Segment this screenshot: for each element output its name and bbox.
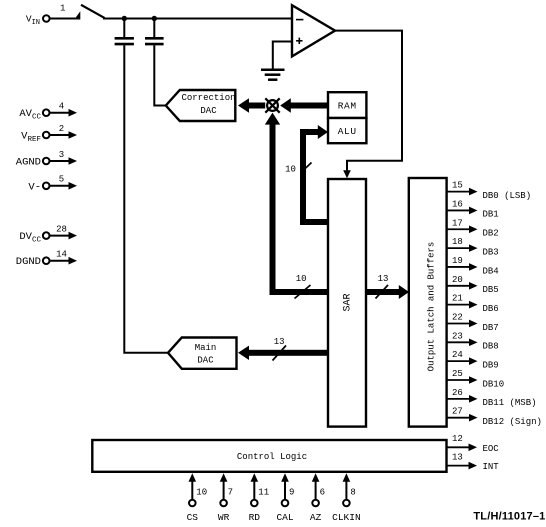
- pin 28 DVCC input: [19, 224, 77, 244]
- svg-text:DB7: DB7: [483, 323, 499, 333]
- svg-text:DB4: DB4: [483, 266, 499, 276]
- svg-text:DB6: DB6: [483, 304, 499, 314]
- svg-text:28: 28: [56, 224, 67, 234]
- pin 3 AGND input: [16, 150, 77, 169]
- svg-text:DB2: DB2: [483, 229, 499, 239]
- capacitor C2: [145, 19, 164, 45]
- Control Logic U6: [92, 440, 446, 472]
- pin 8 CLKIN input: [332, 473, 361, 523]
- ground: [261, 70, 285, 80]
- svg-text:DB8: DB8: [483, 342, 499, 352]
- wire top rail: [103, 18, 293, 20]
- svg-text:DB3: DB3: [483, 247, 499, 257]
- svg-text:DB11 (MSB): DB11 (MSB): [483, 398, 537, 408]
- svg-text:DB12 (Sign): DB12 (Sign): [483, 417, 542, 427]
- capacitor C1: [115, 19, 134, 45]
- svg-text:Correction: Correction: [181, 93, 235, 103]
- wire C1 to Main DAC: [124, 45, 167, 353]
- pin 17 DB2 output: [447, 218, 499, 238]
- svg-text:WR: WR: [218, 512, 230, 523]
- pin 15 DB0 (LSB) output: [447, 181, 532, 201]
- pin 18 DB3 output: [447, 237, 499, 257]
- svg-text:10: 10: [196, 487, 207, 497]
- svg-text:16: 16: [452, 199, 463, 209]
- svg-text:DVCC: DVCC: [19, 231, 41, 244]
- pin 9 CAL input: [276, 473, 294, 523]
- bus width slash 13: [273, 346, 287, 361]
- Output Latch and Buffers U5: [409, 178, 447, 427]
- pin 25 DB10 output: [447, 369, 505, 389]
- svg-text:14: 14: [56, 250, 67, 260]
- pin 10 CS input: [187, 473, 208, 523]
- pin 13 INT output: [447, 452, 500, 472]
- wire comparator output to SAR: [334, 31, 402, 179]
- svg-text:Main: Main: [195, 343, 217, 353]
- bus RAM to summing node: [280, 98, 328, 112]
- svg-text:CLKIN: CLKIN: [332, 512, 361, 523]
- pin 21 DB6 output: [447, 294, 499, 314]
- pin 14 DGND input: [16, 250, 77, 269]
- bus SAR to Output Latch (13): [366, 285, 410, 299]
- bus width slash 13: [376, 285, 389, 299]
- svg-text:1: 1: [60, 4, 65, 14]
- node junction 1: [122, 16, 127, 21]
- pin 20 DB5 output: [447, 275, 499, 295]
- svg-text:ALU: ALU: [338, 126, 357, 137]
- svg-text:15: 15: [452, 181, 463, 191]
- svg-text:AZ: AZ: [310, 512, 322, 523]
- pin 7 WR input: [218, 473, 233, 523]
- Correction DAC: [166, 90, 236, 121]
- svg-text:VIN: VIN: [26, 14, 40, 27]
- op-amp comparator U1: [292, 5, 335, 56]
- svg-text:24: 24: [452, 350, 463, 360]
- pin 4 AVCC input: [19, 102, 77, 122]
- svg-text:DB0 (LSB): DB0 (LSB): [483, 191, 532, 201]
- pin 19 DB4 output: [447, 256, 499, 276]
- pin 6 AZ input: [310, 473, 325, 523]
- svg-text:V-: V-: [28, 181, 41, 193]
- wire C2 to Correction DAC: [154, 45, 166, 105]
- svg-text:23: 23: [452, 331, 463, 341]
- SAR register U4: [328, 179, 366, 427]
- svg-text:11: 11: [258, 487, 269, 497]
- svg-text:CAL: CAL: [276, 512, 293, 523]
- bus SAR to summing node (10): [265, 113, 329, 295]
- wire comparator plus input: [273, 42, 292, 69]
- pin 5 V- input: [28, 175, 77, 194]
- svg-text:3: 3: [59, 150, 64, 160]
- bus SAR to Main DAC (13): [238, 346, 329, 360]
- svg-text:4: 4: [59, 102, 64, 112]
- svg-text:DGND: DGND: [16, 256, 41, 268]
- svg-text:Output Latch and Buffers: Output Latch and Buffers: [427, 242, 437, 372]
- svg-text:12: 12: [452, 434, 463, 444]
- svg-text:CS: CS: [187, 512, 199, 523]
- RAM U2: [328, 92, 366, 118]
- pin 12 EOC output: [447, 434, 500, 454]
- pin 16 DB1 output: [447, 199, 499, 219]
- pin 2 VREF input: [21, 124, 77, 144]
- svg-text:7: 7: [228, 487, 233, 497]
- svg-text:8: 8: [350, 487, 355, 497]
- svg-text:10: 10: [296, 274, 307, 284]
- svg-text:13: 13: [378, 274, 389, 284]
- svg-text:19: 19: [452, 256, 463, 266]
- svg-text:6: 6: [320, 487, 325, 497]
- svg-text:13: 13: [452, 452, 463, 462]
- Main DAC: [168, 338, 237, 369]
- svg-text:9: 9: [289, 487, 294, 497]
- svg-text:20: 20: [452, 275, 463, 285]
- svg-text:DB5: DB5: [483, 285, 499, 295]
- bus SAR to ALU (10): [300, 125, 329, 225]
- summing node (circled X): [265, 98, 279, 112]
- svg-text:26: 26: [452, 388, 463, 398]
- ALU U3: [328, 118, 366, 143]
- svg-text:25: 25: [452, 369, 463, 379]
- svg-text:TL/H/11017–1: TL/H/11017–1: [473, 511, 545, 523]
- svg-text:AGND: AGND: [16, 157, 41, 169]
- pin 11 RD input: [249, 473, 270, 523]
- svg-text:5: 5: [59, 175, 64, 185]
- pin 27 DB12 (Sign) output: [447, 407, 542, 427]
- svg-text:SAR: SAR: [343, 293, 354, 311]
- svg-text:DB1: DB1: [483, 210, 499, 220]
- svg-text:13: 13: [274, 337, 285, 347]
- pin 23 DB8 output: [447, 331, 499, 351]
- svg-text:DB9: DB9: [483, 360, 499, 370]
- svg-text:DAC: DAC: [197, 356, 214, 366]
- svg-text:VREF: VREF: [21, 131, 41, 144]
- bus width slash 10: [302, 163, 312, 173]
- svg-text:27: 27: [452, 407, 463, 417]
- pin 24 DB9 output: [447, 350, 499, 370]
- svg-text:DAC: DAC: [200, 106, 217, 116]
- svg-text:21: 21: [452, 294, 463, 304]
- pin 22 DB7 output: [447, 312, 499, 332]
- svg-text:RAM: RAM: [338, 101, 357, 112]
- node junction 2: [152, 16, 157, 21]
- switch S1: [50, 5, 105, 20]
- svg-text:10: 10: [285, 164, 296, 174]
- bus summing node to Correction DAC: [238, 98, 265, 112]
- bus width slash 10: [295, 285, 311, 299]
- svg-text:EOC: EOC: [483, 444, 500, 454]
- svg-text:17: 17: [452, 218, 463, 228]
- svg-text:18: 18: [452, 237, 463, 247]
- pin VIN (pin 1): [26, 4, 66, 27]
- svg-text:22: 22: [452, 312, 463, 322]
- svg-text:Control Logic: Control Logic: [237, 452, 307, 462]
- pin 26 DB11 (MSB) output: [447, 388, 537, 408]
- svg-text:AVCC: AVCC: [19, 108, 41, 121]
- svg-text:2: 2: [59, 124, 64, 134]
- svg-text:INT: INT: [483, 462, 500, 472]
- svg-text:DB10: DB10: [483, 379, 505, 389]
- svg-text:RD: RD: [249, 512, 261, 523]
